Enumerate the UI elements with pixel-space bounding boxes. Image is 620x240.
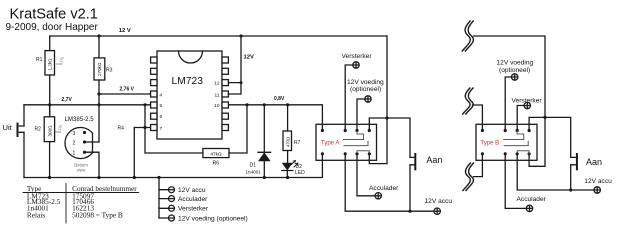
- svg-text:R4: R4: [118, 125, 125, 131]
- svg-text:2,76 V: 2,76 V: [120, 87, 135, 93]
- svg-text:12V accu: 12V accu: [425, 198, 453, 205]
- wire relay B pin B3 to 12V accu terminal B: [517, 154, 594, 190]
- wire relay A pin B2 to 12V accu terminal: [345, 154, 434, 211]
- junction terminal list on ground rail: [157, 176, 160, 179]
- relay K2 Type B box: [476, 124, 537, 160]
- node junction 2,76V: [97, 92, 100, 95]
- svg-text:Relais: Relais: [27, 211, 45, 220]
- wire 2,7V to pin 5: [24, 104, 150, 106]
- svg-text:300Ω: 300Ω: [48, 125, 53, 137]
- wire voeding B to relay B pin T2: [505, 77, 511, 131]
- terminal minus Acculader: [169, 196, 175, 202]
- diode D1 1n4001: [258, 105, 271, 178]
- terminal minus 12V accu: [169, 187, 175, 193]
- node junction R4: [143, 126, 146, 129]
- svg-text:(optioneel): (optioneel): [499, 67, 530, 74]
- wire R6 right to rail: [229, 105, 247, 153]
- node R4 wires: [145, 105, 203, 153]
- relay B pins top row: [481, 129, 531, 132]
- terminal minus Versterker: [169, 205, 175, 211]
- svg-text:6: 6: [160, 114, 163, 120]
- junction LM385 pin1 on ground rail: [97, 176, 100, 179]
- svg-text:LM385-2.5: LM385-2.5: [65, 116, 95, 123]
- node junction R3 column: [97, 103, 100, 106]
- svg-text:Acculader: Acculader: [369, 185, 399, 192]
- pins right 8-14: [222, 57, 228, 131]
- relay K1 Type A box: [316, 124, 377, 160]
- relay A pins bottom row: [321, 152, 371, 155]
- svg-text:Type B: Type B: [481, 140, 500, 146]
- svg-text:5: 5: [160, 103, 163, 109]
- wire 0,8V rail from pin 10: [229, 105, 323, 131]
- svg-text:470Ω: 470Ω: [285, 137, 290, 147]
- svg-text:7: 7: [160, 126, 163, 132]
- pushbutton Aan B: [576, 153, 578, 170]
- pin 1: [83, 151, 86, 154]
- break squiggle middle: [466, 88, 473, 114]
- wire relay B pin B2 to Acculader terminal B: [505, 154, 526, 209]
- svg-text:(optioneel): (optioneel): [350, 86, 381, 93]
- node junction R1/R2 column: [48, 103, 51, 106]
- resistor R1: [49, 36, 51, 117]
- resistor R7: [287, 105, 289, 163]
- junction D1 on ground rail: [263, 176, 266, 179]
- wire 12V top rail: [50, 35, 387, 37]
- svg-text:D2: D2: [296, 164, 303, 170]
- svg-text:12V: 12V: [244, 55, 254, 61]
- resistor R3: [98, 36, 100, 142]
- wire pin2 to node: [85, 141, 100, 143]
- svg-text:R6: R6: [213, 161, 220, 167]
- svg-text:Versterker: Versterker: [178, 206, 209, 213]
- op-amp regulator U1 LM723 DIP-14 body: [157, 51, 222, 139]
- wire main ground rail: [24, 154, 322, 178]
- node junction 12V link B: [543, 116, 546, 119]
- svg-text:1,2kΩ: 1,2kΩ: [48, 58, 53, 71]
- break squiggle bottom: [466, 163, 474, 191]
- wire pin1 to ground: [85, 152, 100, 177]
- relay A pins top row: [321, 129, 371, 132]
- annotation 1% R1: [57, 63, 63, 65]
- wire 2,76V to pin 4: [99, 93, 150, 95]
- svg-text:9-2009, door Happer: 9-2009, door Happer: [6, 22, 99, 33]
- svg-text:12V accu: 12V accu: [178, 187, 206, 194]
- wire relay B pin B1 to squiggle: [474, 154, 483, 177]
- svg-text:4: 4: [160, 92, 163, 98]
- svg-text:0,8V: 0,8V: [274, 96, 285, 102]
- svg-text:2,7V: 2,7V: [62, 97, 73, 103]
- resistor R2: [49, 105, 51, 178]
- wire Versterker B to relay B pin T3: [517, 106, 524, 131]
- wire Versterker to relay A pin T2: [345, 65, 353, 131]
- svg-text:R1: R1: [36, 57, 43, 63]
- svg-text:12V voeding: 12V voeding: [347, 79, 384, 86]
- node junction 12V drop: [239, 34, 242, 37]
- pushbutton Aan A: [414, 153, 416, 170]
- relay B pins bottom row: [481, 152, 531, 155]
- junction R2 on ground rail: [48, 176, 51, 179]
- svg-text:Acculader: Acculader: [517, 196, 547, 203]
- svg-text:Uit: Uit: [3, 123, 13, 132]
- svg-text:R3: R3: [106, 68, 113, 74]
- svg-text:12V voeding (optioneel): 12V voeding (optioneel): [178, 215, 248, 222]
- svg-text:3: 3: [73, 131, 76, 137]
- junction R4 on ground rail: [133, 176, 136, 179]
- wire 12V vertical to relay A pin B4: [369, 36, 387, 164]
- svg-text:R2: R2: [35, 127, 42, 133]
- voltage reference U2 LM385-2.5 TO-92 bottom view: [65, 127, 93, 158]
- break squiggle top right: [465, 21, 473, 51]
- svg-text:11: 11: [215, 92, 220, 98]
- svg-text:2: 2: [73, 140, 76, 146]
- pins left 1-7: [151, 57, 157, 131]
- svg-text:Aan: Aan: [426, 155, 442, 165]
- svg-text:270kΩ: 270kΩ: [97, 62, 102, 76]
- node junction 12V link A: [385, 116, 388, 119]
- wire 12V drop to pins 12,11: [228, 36, 241, 94]
- svg-text:LED: LED: [295, 170, 305, 176]
- wire relay B pin T4 link to Aan B: [529, 117, 571, 157]
- pin 2: [83, 140, 86, 143]
- svg-text:D1: D1: [250, 162, 257, 168]
- svg-text:Acculader: Acculader: [178, 196, 208, 203]
- node junction R3 top: [97, 34, 100, 37]
- svg-text:view: view: [77, 168, 86, 173]
- wire relay A pin T4 link to Aan: [369, 118, 410, 157]
- junction D2 on ground rail: [286, 176, 289, 179]
- svg-text:LM723: LM723: [172, 76, 204, 87]
- svg-text:10: 10: [214, 103, 220, 109]
- node junction D1 drop: [263, 103, 266, 106]
- ground terminal list: [158, 178, 160, 219]
- svg-text:502098 = Type B: 502098 = Type B: [72, 211, 123, 220]
- wire 12V from squiggle to Type B section: [474, 36, 546, 166]
- resistor R6: [203, 149, 229, 158]
- svg-text:1n4001: 1n4001: [246, 169, 262, 174]
- relay A contacts: [344, 131, 370, 154]
- svg-text:Type A: Type A: [321, 140, 339, 146]
- pin 3: [83, 131, 86, 134]
- svg-text:47kΩ: 47kΩ: [210, 151, 222, 157]
- wire voeding to relay A pin T3: [357, 99, 365, 131]
- svg-text:1: 1: [73, 151, 76, 157]
- pushbutton Uit: [17, 123, 19, 137]
- wire squiggle to relay B pin T1: [473, 105, 483, 131]
- svg-text:Versterker: Versterker: [342, 53, 373, 60]
- node junction R6 drop: [245, 103, 248, 106]
- svg-text:Aan: Aan: [586, 157, 602, 167]
- parts table: [27, 184, 137, 220]
- node junction R7 drop: [286, 103, 289, 106]
- svg-text:KratSafe v2.1: KratSafe v2.1: [10, 6, 98, 22]
- relay B contacts: [504, 131, 529, 154]
- LED D2: [282, 163, 293, 171]
- svg-text:12V voeding: 12V voeding: [497, 60, 534, 67]
- wire relay A pin B3 to Acculader terminal: [357, 154, 375, 196]
- svg-text:12: 12: [214, 81, 220, 87]
- annotation 1% R2: [56, 131, 62, 133]
- svg-text:R7: R7: [294, 140, 301, 146]
- node junction R4 column top: [143, 103, 146, 106]
- terminal minus 12V voeding: [169, 215, 175, 221]
- svg-text:12 V: 12 V: [119, 28, 131, 34]
- svg-text:12V accu: 12V accu: [584, 178, 612, 185]
